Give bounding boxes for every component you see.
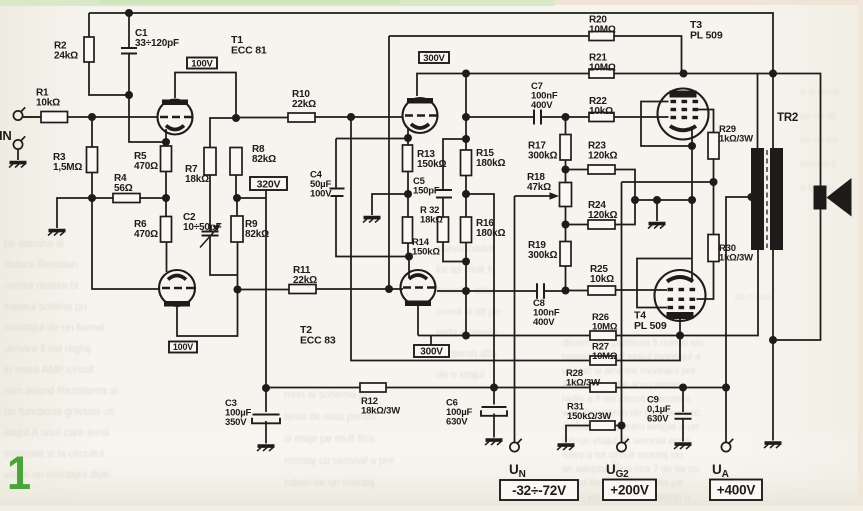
triode T1a ECC81 section A: [158, 100, 193, 135]
resistor R21: [589, 69, 614, 78]
wire R2 bottom lead: [89, 62, 129, 95]
wire 300V stub: [430, 336, 432, 346]
capacitor C6: [481, 407, 507, 416]
wire R30 to T4 g2: [697, 262, 714, 300]
node R29/R30/G2 supply: [710, 178, 718, 186]
svg-text:contra realiza bi: contra realiza bi: [4, 280, 78, 292]
svg-text:-32÷-72V: -32÷-72V: [512, 483, 566, 498]
wire T2b grid to C8: [437, 290, 537, 292]
wire to C6 rail: [466, 194, 494, 388]
node T4 plate: [676, 332, 684, 340]
wire R25 to T4 g1: [616, 289, 668, 291]
wire R20 right lead: [614, 36, 682, 74]
wire R5 bottom lead: [165, 172, 167, 199]
wire T2a cathode lead: [407, 127, 409, 138]
wire T2b cathode lead: [408, 257, 410, 278]
resistor R3: [87, 147, 98, 173]
resistor R27: [590, 356, 616, 365]
node C9: [679, 384, 687, 392]
wire to 320V stub: [237, 197, 266, 199]
svg-text:100V: 100V: [191, 58, 213, 69]
wire UA terminal lead: [725, 388, 727, 443]
wire R7 top lead: [210, 118, 236, 148]
wire terminal lead: [23, 116, 41, 118]
resistor R23: [588, 165, 615, 174]
resistor R13: [403, 145, 413, 172]
node R31/UG2: [618, 422, 626, 430]
wire UG2 supply line: [621, 182, 623, 442]
node top rail / C1: [125, 9, 133, 17]
terminal UG2: [617, 439, 629, 452]
ground C3: [257, 446, 275, 451]
wire R2 top lead: [88, 13, 90, 37]
svg-text:se adoptat be o cca 7 de tia c: se adoptat be o cca 7 de tia cu: [562, 463, 699, 475]
wire to ground stub: [57, 198, 92, 228]
wire plate rail to speaker: [684, 74, 821, 186]
svg-text:+200V: +200V: [610, 483, 649, 498]
wire main centre column: [465, 74, 467, 336]
node R16/R32: [462, 258, 470, 266]
svg-text:320V: 320V: [257, 178, 281, 190]
resistor R19: [560, 242, 571, 267]
triode T2a ECC83 section A: [403, 98, 438, 133]
resistor R31: [590, 421, 615, 430]
terminal UA: [721, 439, 733, 452]
wire R31 left lead: [566, 426, 590, 443]
wire T3 g2 to R29: [697, 110, 714, 133]
wire 320V rail down to C3: [265, 190, 267, 388]
svg-text:de o etajul: de o etajul: [436, 369, 485, 381]
wire R11 left lead: [238, 289, 290, 291]
wiper arrow R18: [550, 192, 560, 199]
node T1b plate/R9/R11: [234, 286, 242, 294]
wire to C5: [443, 139, 466, 189]
wire T1b plate lead: [177, 290, 238, 337]
wire cathode to C4: [336, 138, 408, 140]
resistor R18 potentiometer: [560, 183, 572, 207]
voltage label UN value: [500, 480, 578, 500]
capacitor C7: [534, 110, 541, 125]
wire T3 cathode lead: [691, 130, 693, 147]
wire C9 bottom lead: [682, 420, 684, 442]
wire supply rail C3 to R12: [266, 387, 360, 389]
wire IN to R1: [23, 116, 41, 118]
node TR2 tap: [748, 193, 756, 201]
svg-text:si etaje pe mult fina: si etaje pe mult fina: [284, 433, 376, 445]
ground C6: [485, 440, 503, 445]
wire C4 to T2b cathode: [336, 197, 409, 257]
wire R6 top lead: [165, 198, 167, 217]
resistor R32: [438, 217, 449, 242]
svg-text:TR2: TR2: [777, 112, 798, 124]
wire C1 bottom lead: [128, 54, 130, 96]
resistor R20: [589, 32, 614, 41]
triode T2b ECC83 section B: [401, 270, 436, 306]
svg-text:montaj cu semnal a pre: montaj cu semnal a pre: [284, 455, 394, 467]
wire C3 bottom lead: [265, 421, 267, 444]
node C6: [490, 384, 498, 392]
wire supply rail R28 to UA: [616, 387, 726, 389]
capacitor C5: [436, 190, 452, 198]
resistor R17: [560, 135, 571, 161]
wire R20 feedback vertical: [388, 36, 390, 289]
wire R17 top lead: [565, 117, 567, 135]
wire C5 to R32: [442, 199, 444, 218]
svg-text:conul si alt pe: conul si alt pe: [436, 306, 500, 318]
wire R21 left lead: [466, 73, 589, 75]
wire IN2 to ground: [17, 150, 19, 161]
speaker: [814, 178, 852, 217]
svg-text:montaj fi: montaj fi: [800, 159, 836, 170]
wire TR2 primary top lead: [757, 74, 759, 149]
wire R3 bottom lead: [91, 172, 93, 198]
svg-text:traseul schima pu: traseul schima pu: [4, 301, 87, 313]
node R1/R3 grid: [88, 113, 96, 121]
svg-text:ram avand Rezistenta si: ram avand Rezistenta si: [4, 385, 117, 397]
voltage label 100V anode T1a: [187, 58, 217, 70]
wire R9 bottom lead: [237, 242, 239, 290]
wire 300V rail left: [418, 335, 590, 337]
node R3/R4: [88, 194, 96, 202]
svg-text:300V: 300V: [423, 53, 445, 64]
capacitor C3: [252, 415, 280, 424]
wire R10 left lead: [236, 117, 288, 119]
terminal input signal: [13, 107, 25, 120]
voltage label UA value: [710, 480, 762, 501]
resistor R24: [588, 220, 615, 229]
wire R22 to T3 g1: [614, 116, 669, 118]
resistor R25: [588, 286, 616, 295]
wire R18 wiper: [515, 195, 553, 197]
wire R27 left run: [351, 117, 590, 361]
svg-text:mon al schema pu: mon al schema pu: [284, 389, 371, 401]
wire C7 left lead: [466, 116, 534, 118]
wire R23 right lead: [615, 170, 635, 201]
wire R19 bottom lead: [565, 266, 567, 291]
node UA feed: [722, 384, 730, 392]
node T2a cathode: [404, 134, 412, 142]
wire TR2 secondary top lead: [772, 74, 774, 149]
resistor R28: [590, 383, 616, 392]
svg-text:datora Rezisten: datora Rezisten: [4, 259, 78, 271]
voltage label 100V anode T1b: [169, 342, 197, 353]
node T3 cathode: [688, 142, 696, 150]
svg-text:un functiona griletatii uti: un functiona griletatii uti: [4, 406, 114, 418]
svg-text:citeva cuvint: citeva cuvint: [436, 243, 494, 255]
figure number 1: [7, 446, 31, 499]
node T2b grid: [385, 285, 393, 293]
node R13/R14: [404, 190, 412, 198]
node T1a plate/R7/R8/R10: [232, 114, 240, 122]
svg-text:+400V: +400V: [717, 483, 756, 498]
svg-text:dinam una particula fi numai s: dinam una particula fi numai slo: [562, 337, 704, 349]
svg-text:lor as mult fi: lor as mult fi: [436, 264, 493, 276]
capacitor C2 trimmer: [200, 230, 219, 248]
terminal input ground: [13, 136, 25, 149]
node bias/C8/R25: [562, 287, 570, 295]
svg-text:tuburi de un montaj: tuburi de un montaj: [284, 477, 374, 489]
wire T2b plate lead: [417, 304, 419, 336]
capacitor C1: [121, 48, 137, 54]
wire R8 bottom lead: [235, 175, 237, 198]
resistor R15: [461, 150, 472, 176]
wire ground stub: [656, 200, 658, 221]
wire ground bus: [635, 199, 692, 201]
svg-text:IN: IN: [0, 128, 12, 143]
wire R13 bottom lead: [407, 172, 409, 195]
wire supply rail R12 to R28: [386, 387, 590, 389]
node R15/R16: [462, 190, 470, 198]
node T2b cathode: [405, 253, 413, 261]
wire R24 left lead: [566, 224, 589, 226]
wire TR2 secondary bottom: [772, 250, 774, 441]
wire R6 to T1b cathode: [166, 242, 168, 272]
resistor R2: [84, 37, 94, 62]
wire C7 to R22: [541, 116, 589, 118]
svg-text:etajul A unui care tensi: etajul A unui care tensi: [4, 427, 109, 439]
node C1/R2: [125, 91, 133, 99]
node R24: [562, 221, 570, 229]
ground C9: [674, 444, 692, 449]
wire R4 right lead: [140, 197, 166, 199]
wire C4 top lead: [335, 139, 337, 188]
resistor R14: [403, 217, 413, 243]
resistor R22: [589, 113, 614, 122]
wire R23 left lead: [566, 169, 589, 171]
svg-text:urmare il est reglaj: urmare il est reglaj: [4, 343, 90, 355]
ground R31: [557, 445, 575, 450]
node column end: [462, 332, 470, 340]
voltage label 320V supply: [250, 177, 287, 190]
svg-text:1: 1: [7, 446, 31, 499]
terminal UN: [510, 439, 522, 452]
wire R21 right lead: [614, 73, 684, 75]
resistor R5: [161, 146, 172, 172]
wire T3 g3 tie: [641, 102, 692, 147]
wire R18/R19: [565, 207, 567, 242]
wire T1a cathode lead: [165, 129, 167, 146]
pentode T3 PL509: [658, 89, 709, 140]
wire UN supply line: [514, 196, 516, 442]
resistor R4: [113, 194, 140, 203]
wire R14 top lead: [407, 194, 409, 217]
transformer TR2: [751, 148, 783, 250]
resistor R12: [360, 383, 386, 392]
svg-text:300V: 300V: [420, 347, 443, 358]
node 320V: [233, 194, 241, 202]
wire R9 top lead: [236, 198, 238, 216]
wire C6 bottom lead: [493, 414, 495, 438]
wire R29 to R30: [713, 159, 715, 235]
resistor R1: [41, 112, 68, 123]
wire C9 top lead: [682, 388, 684, 413]
wire C6 top lead: [493, 388, 495, 405]
wire R10 to T2a grid: [315, 116, 403, 118]
resistor R8: [230, 148, 242, 176]
resistor R7: [204, 148, 216, 176]
capacitor C4: [330, 189, 345, 197]
wire R20 left lead: [389, 35, 589, 37]
wire C8 right lead: [544, 290, 565, 292]
node output return: [769, 336, 777, 344]
ground bias network: [648, 224, 666, 229]
wire C1 top lead: [128, 13, 130, 48]
voltage label 300V anode T2b: [414, 345, 449, 358]
svg-text:montajul de un fiamel: montajul de un fiamel: [4, 322, 104, 334]
wire G2 supply run: [622, 181, 714, 183]
node C8 feed: [462, 287, 470, 295]
wire node to T1a cathode: [129, 95, 166, 142]
resistor R26: [590, 331, 616, 340]
wire T4 g3 tie: [637, 259, 692, 308]
node C3/R12: [262, 384, 270, 392]
wire R17/R18: [565, 160, 567, 183]
wire R1 to grid node: [68, 116, 93, 118]
resistor R29: [708, 133, 719, 160]
wire R14 bottom lead: [407, 243, 409, 257]
wire C3 top lead: [265, 388, 267, 412]
svg-text:amintit o alt pentru simple o: amintit o alt pentru simple o un: [562, 421, 699, 433]
capacitor C8: [537, 283, 544, 299]
svg-text:pe un alt: pe un alt: [800, 111, 837, 122]
resistor R10: [288, 113, 315, 122]
node cathode ground: [688, 196, 696, 204]
capacitor C9: [675, 414, 692, 419]
wire R31 right lead: [615, 425, 622, 427]
wire R32 to column: [443, 242, 466, 262]
wire R3 top lead: [91, 117, 93, 147]
wire R25 left lead: [566, 290, 589, 292]
resistor R11: [289, 285, 316, 294]
ground R13/R14: [363, 218, 381, 223]
wire R27 right lead: [616, 336, 680, 361]
node C5 feed: [462, 135, 470, 143]
wire R24 right lead: [615, 200, 635, 225]
triode T1b ECC81 section B: [159, 270, 195, 307]
resistor R9: [231, 216, 243, 242]
ground input: [9, 163, 27, 168]
wire T1b grid feed: [92, 198, 159, 289]
wire T2a plate lead: [417, 74, 466, 97]
node ground stub: [653, 196, 661, 204]
wire T1a plate to node: [175, 73, 236, 119]
node R10/bias: [347, 113, 355, 121]
svg-text:lta o cca: lta o cca: [735, 292, 771, 303]
wire C2 to T1b plate node: [210, 237, 238, 276]
resistor R30: [708, 235, 719, 262]
wire R13 top lead: [407, 138, 409, 145]
wire top feedback rail: [89, 13, 773, 74]
node output rail: [769, 70, 777, 78]
wire to speaker bottom: [773, 210, 821, 341]
svg-text:pe sarcina al: pe sarcina al: [4, 238, 64, 250]
resistor R16: [461, 217, 472, 243]
wire TR2 tap to +400V: [726, 197, 752, 388]
svg-text:100V: 100V: [173, 342, 193, 352]
wire cathode column: [691, 146, 693, 280]
wire T4 plate lead: [679, 319, 681, 336]
wire R4 left lead: [92, 197, 113, 199]
node T2a plate: [462, 70, 470, 78]
wire into T2b grid: [389, 288, 403, 290]
wire rail to TR2 winding: [616, 250, 758, 336]
node R4/R5/R6: [162, 194, 170, 202]
voltage label UG2 value: [603, 480, 656, 501]
wire to ground: [372, 194, 408, 215]
node T1a cathode: [162, 138, 170, 146]
node R23: [562, 166, 570, 174]
wire R11 right lead: [316, 288, 389, 290]
resistor R6: [161, 217, 172, 243]
wire R7 to C2: [209, 175, 211, 231]
voltage label 300V anode T2a: [419, 52, 449, 64]
node R17 top: [562, 113, 570, 121]
svg-text:de tot va: de tot va: [800, 135, 837, 146]
node C7 feed: [462, 113, 470, 121]
svg-text:in retea AMF circuit: in retea AMF circuit: [4, 364, 94, 376]
node bias ground: [631, 196, 639, 204]
node T3 plate: [680, 70, 688, 78]
ground near R4: [48, 231, 66, 236]
ground output: [764, 443, 782, 448]
wire T1a grid: [92, 116, 158, 118]
pentode T4 PL509: [655, 270, 706, 321]
